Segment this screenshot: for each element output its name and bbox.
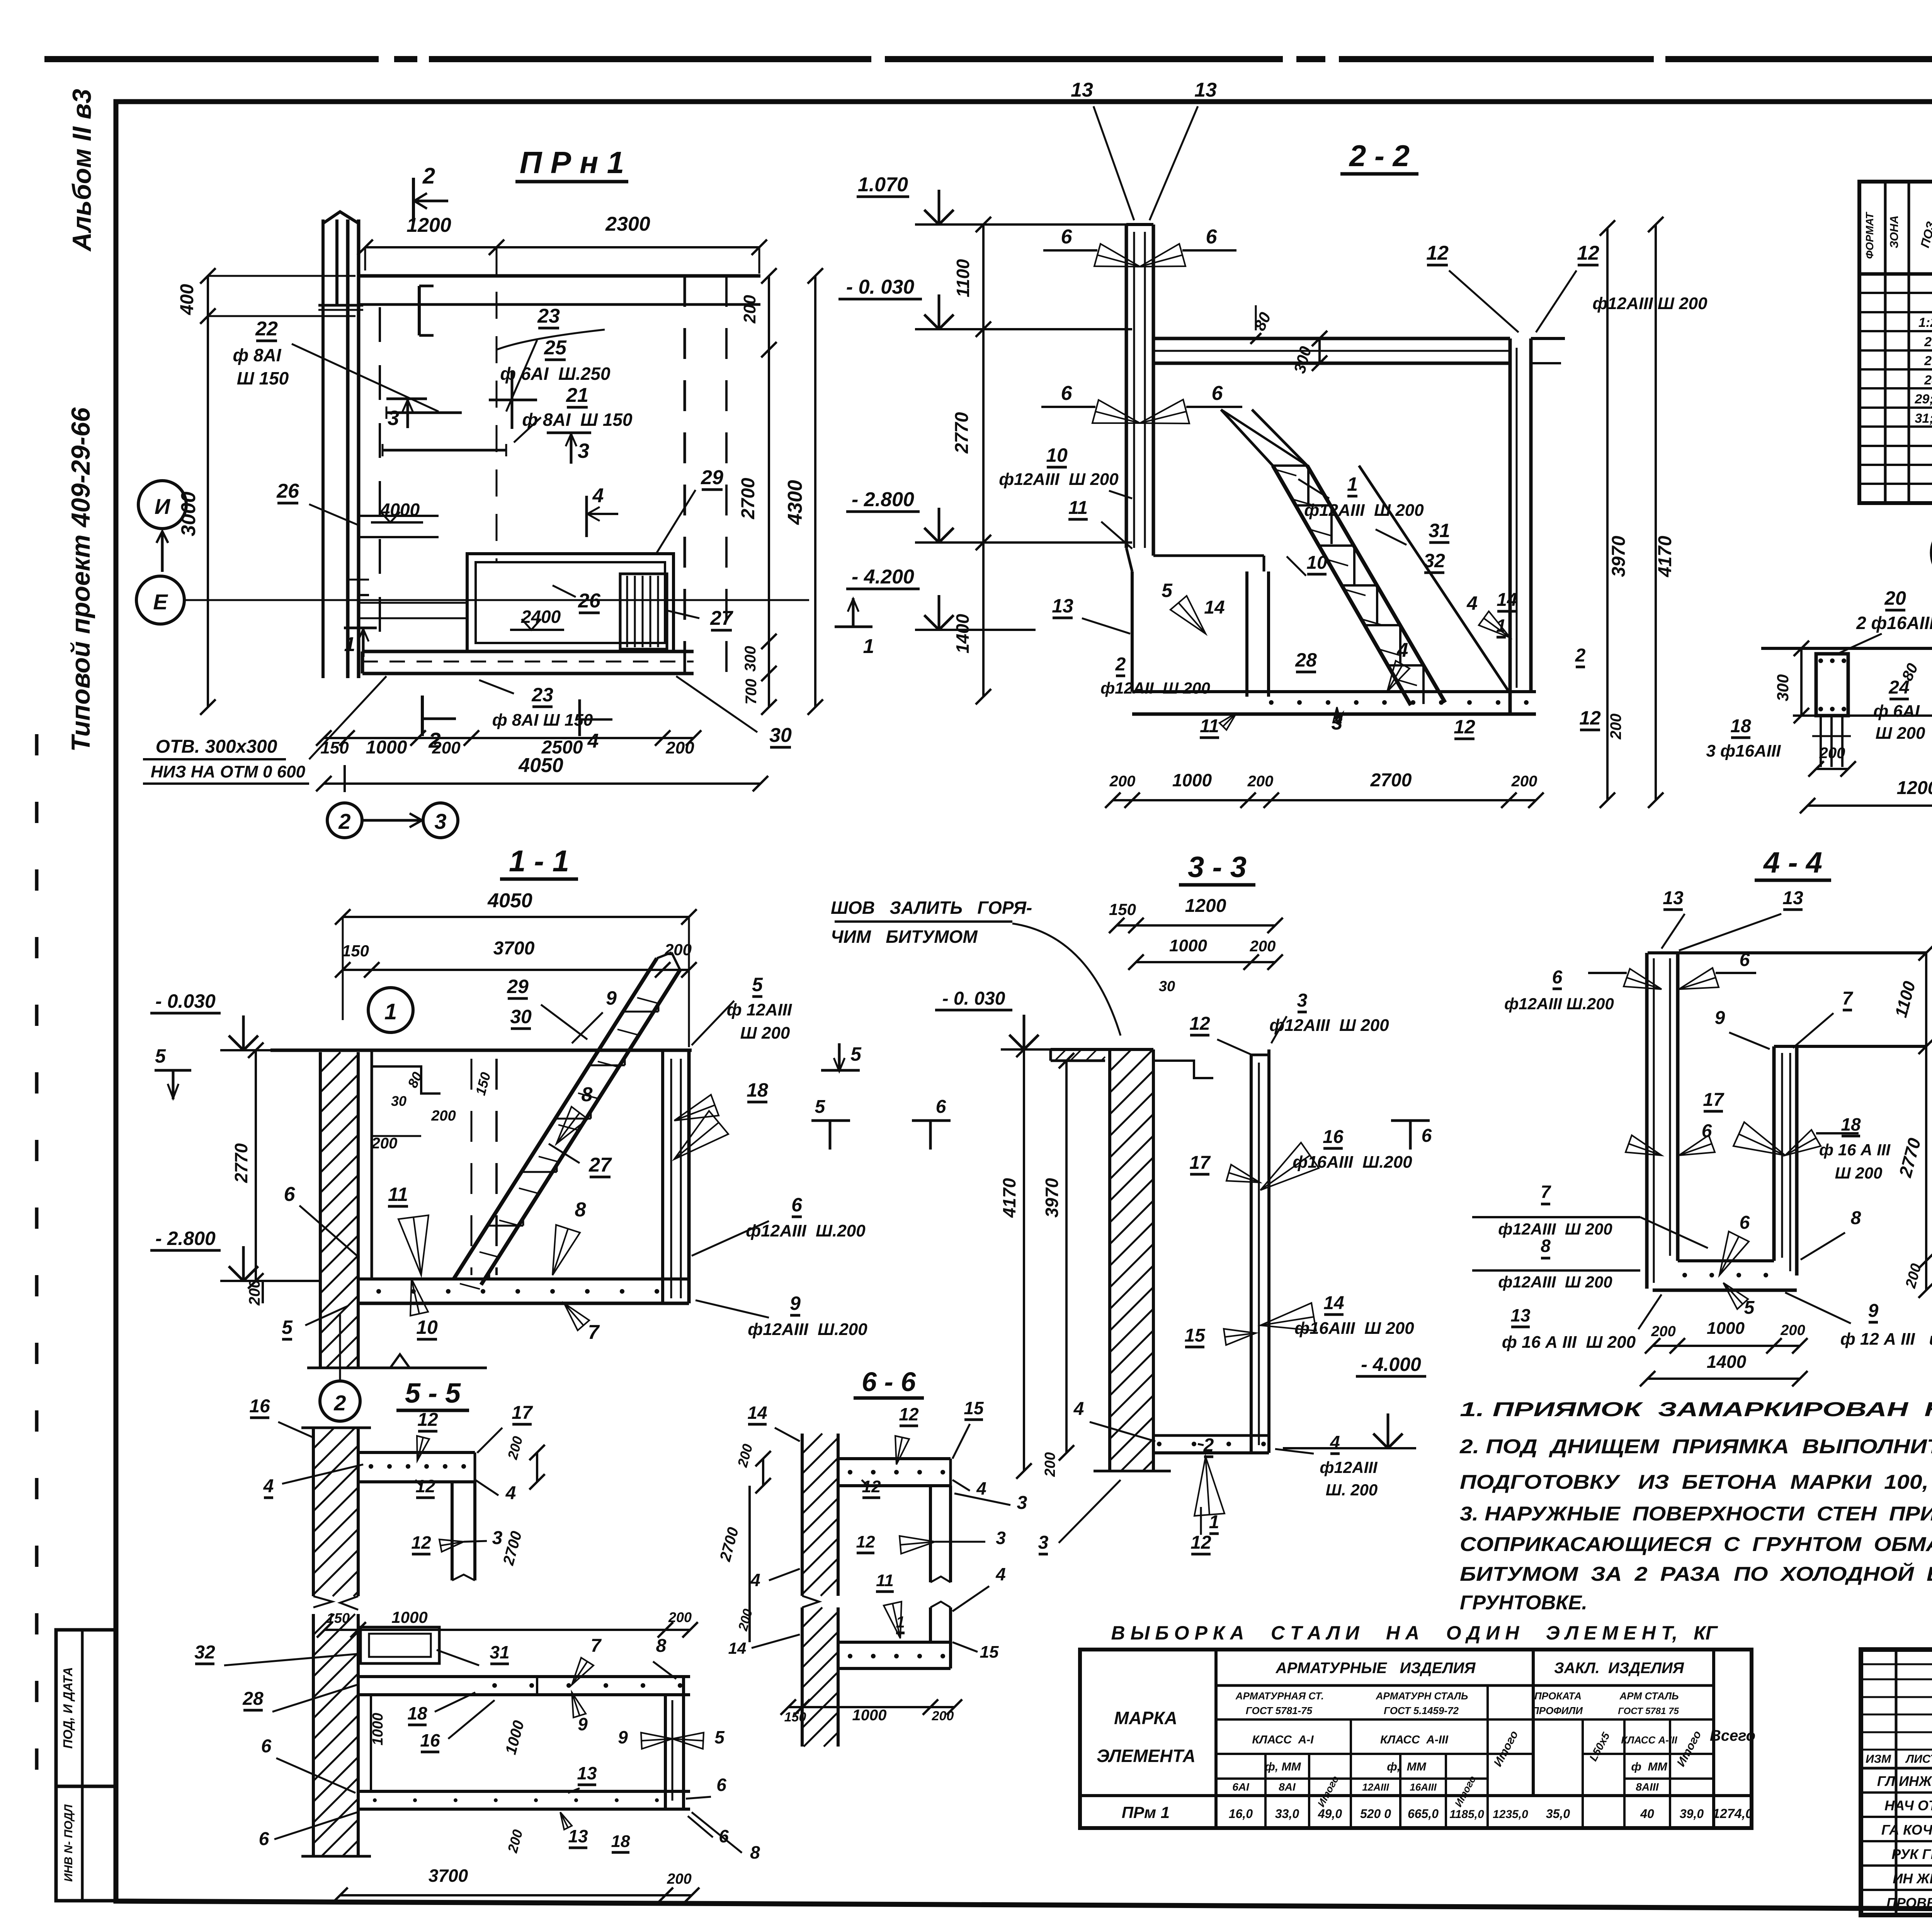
svg-text:1 - 1: 1 - 1	[509, 844, 569, 878]
svg-text:8: 8	[1851, 1208, 1861, 1228]
svg-text:П Р н 1: П Р н 1	[520, 145, 624, 180]
svg-text:17: 17	[1189, 1153, 1211, 1173]
svg-text:6: 6	[259, 1829, 269, 1849]
svg-text:12: 12	[411, 1532, 431, 1553]
svg-text:ИЗМ: ИЗМ	[1866, 1753, 1891, 1765]
section 1-1 section mark 5 right	[821, 1069, 860, 1072]
svg-text:33,0: 33,0	[1275, 1807, 1299, 1821]
svg-text:3: 3	[1017, 1493, 1027, 1513]
paper left dashed fold line	[35, 734, 39, 1816]
svg-text:1: 1	[344, 633, 355, 656]
svg-text:31;32: 31;32	[1915, 411, 1932, 426]
svg-text:18: 18	[747, 1079, 768, 1101]
svg-text:2: 2	[333, 1391, 346, 1415]
section 1-1 stair top break	[657, 952, 672, 958]
svg-text:28: 28	[1924, 373, 1932, 388]
svg-text:ф 6АI Ш.250: ф 6АI Ш.250	[500, 364, 611, 384]
svg-text:2300: 2300	[605, 213, 650, 235]
section 1-1 right wall	[661, 1050, 664, 1303]
svg-text:13: 13	[1510, 1305, 1531, 1325]
section 1-1 ground line	[270, 1049, 692, 1052]
section 2-2 stair diagonal	[1273, 466, 1411, 705]
svg-text:1: 1	[384, 999, 397, 1024]
svg-text:3700: 3700	[493, 938, 535, 959]
svg-text:3: 3	[1038, 1532, 1049, 1553]
svg-text:150: 150	[327, 1610, 350, 1626]
svg-text:29;30: 29;30	[1915, 392, 1932, 406]
svg-text:1000: 1000	[1707, 1319, 1745, 1338]
svg-text:7: 7	[591, 1636, 602, 1656]
svg-text:35,0: 35,0	[1546, 1807, 1570, 1821]
plan PRN1 bottom dimension line	[324, 737, 694, 739]
svg-text:150: 150	[1109, 900, 1136, 918]
section 5-5 right wall	[664, 1695, 667, 1809]
section 3-3 bottom ground break	[1094, 1470, 1171, 1473]
svg-text:1.070: 1.070	[858, 173, 908, 196]
plan PRN1 top edge inner line	[359, 303, 760, 306]
plan PRN1 section circles 2 3	[327, 803, 362, 838]
svg-text:ф 12 А III ш 200: ф 12 А III ш 200	[1840, 1330, 1932, 1349]
svg-text:10: 10	[416, 1316, 438, 1338]
svg-text:3: 3	[1297, 990, 1308, 1011]
svg-text:12: 12	[1579, 707, 1601, 729]
svg-text:ПРОКАТА: ПРОКАТА	[1534, 1690, 1582, 1702]
svg-text:200: 200	[932, 1709, 954, 1723]
svg-text:49,0: 49,0	[1318, 1807, 1342, 1821]
svg-text:1000: 1000	[1172, 770, 1212, 790]
svg-text:ф16АIII Ш 200: ф16АIII Ш 200	[1294, 1319, 1414, 1338]
svg-text:4: 4	[1397, 639, 1408, 662]
svg-text:8АIII: 8АIII	[1636, 1781, 1659, 1793]
svg-text:5 - 5: 5 - 5	[405, 1378, 461, 1409]
svg-text:ф, ММ: ф, ММ	[1387, 1760, 1427, 1773]
svg-text:28: 28	[1295, 649, 1317, 671]
section 2-2 tie fans lower left	[1170, 596, 1206, 634]
plan PRN1 left dimension line 400 3000	[207, 276, 209, 707]
svg-text:1000: 1000	[391, 1608, 427, 1626]
svg-text:4: 4	[505, 1483, 516, 1503]
svg-text:ф 8АI: ф 8АI	[233, 345, 281, 365]
svg-text:1000: 1000	[852, 1707, 887, 1724]
svg-text:40: 40	[1640, 1807, 1654, 1821]
section 4-4 bottom dims	[1653, 1345, 1800, 1347]
svg-text:18: 18	[407, 1703, 427, 1723]
plan PRN1 total dimension 4050	[324, 782, 760, 785]
svg-text:200: 200	[740, 295, 759, 324]
svg-text:КЛАСС А-III: КЛАСС А-III	[1621, 1734, 1677, 1746]
svg-text:1400: 1400	[952, 614, 973, 653]
svg-text:3: 3	[578, 439, 589, 463]
svg-text:2 - 2: 2 - 2	[1349, 139, 1410, 173]
plan PRN1 right dimension lines	[768, 276, 770, 707]
svg-text:ф 8АI Ш 150: ф 8АI Ш 150	[492, 711, 593, 730]
section 1-1 circle 1	[368, 988, 413, 1032]
svg-text:30: 30	[769, 724, 792, 747]
section 2-2 stair top X brace	[1221, 410, 1273, 466]
svg-text:200: 200	[1250, 938, 1276, 955]
svg-text:1:25: 1:25	[1918, 315, 1932, 330]
svg-text:12АIII: 12АIII	[1362, 1781, 1389, 1793]
plan PRN1 section mark 3 left	[386, 398, 427, 400]
svg-text:1200: 1200	[1897, 778, 1932, 798]
plan PRN1 axis dashed line	[379, 307, 381, 653]
section 4-4 inner wall	[1772, 1046, 1776, 1261]
specification table grid	[1859, 182, 1932, 503]
svg-text:4050: 4050	[487, 889, 532, 912]
svg-text:- 0. 030: - 0. 030	[846, 276, 914, 298]
svg-text:32: 32	[194, 1642, 215, 1663]
svg-text:ИНВ N- ПОДЛ: ИНВ N- ПОДЛ	[62, 1804, 75, 1882]
svg-text:ГЛ ИНЖ.ЛР: ГЛ ИНЖ.ЛР	[1877, 1773, 1932, 1789]
svg-text:11: 11	[388, 1184, 408, 1205]
svg-text:6: 6	[1061, 382, 1073, 405]
svg-text:200: 200	[1511, 773, 1537, 790]
svg-text:КЛАСС А-I: КЛАСС А-I	[1252, 1733, 1314, 1746]
svg-text:7: 7	[1842, 988, 1854, 1009]
svg-text:200: 200	[1109, 773, 1136, 790]
svg-text:- 0. 030: - 0. 030	[942, 988, 1005, 1009]
svg-text:12: 12	[1426, 242, 1449, 264]
svg-text:8: 8	[750, 1842, 760, 1862]
svg-text:ГОСТ 5781 75: ГОСТ 5781 75	[1618, 1706, 1679, 1716]
svg-text:АРМАТУРНАЯ СТ.: АРМАТУРНАЯ СТ.	[1235, 1690, 1324, 1702]
svg-text:15: 15	[964, 1398, 984, 1418]
svg-text:ГРУНТОВКЕ.: ГРУНТОВКЕ.	[1460, 1592, 1587, 1614]
section 2-2 top right slab	[1153, 337, 1510, 340]
detail 1 ties below column	[1820, 716, 1822, 767]
paper top edge line	[44, 56, 379, 62]
svg-text:Ш 200: Ш 200	[1876, 724, 1925, 743]
svg-text:14: 14	[747, 1403, 767, 1423]
plan PRN1 right dashed wall line	[684, 276, 686, 673]
svg-text:ф12АII Ш 200: ф12АII Ш 200	[1100, 679, 1210, 697]
svg-text:1235,0: 1235,0	[1493, 1808, 1528, 1821]
svg-text:30: 30	[391, 1093, 406, 1109]
svg-text:200: 200	[1247, 773, 1274, 790]
section 4-4 right dim vertical	[1925, 953, 1927, 1290]
section 1-1 circle 2 below	[320, 1381, 360, 1421]
section 3-3 right thin wall	[1250, 1055, 1253, 1453]
plan PRN1 existing column stub	[321, 219, 325, 678]
svg-text:АРМАТУРНЫЕ ИЗДЕЛИЯ: АРМАТУРНЫЕ ИЗДЕЛИЯ	[1276, 1660, 1476, 1677]
svg-text:ЛИСТ: ЛИСТ	[1905, 1753, 1932, 1765]
title block left grid	[1895, 1650, 1898, 1915]
section 3-3 wall top cap	[1051, 1048, 1153, 1051]
section 4-4 inner level line	[1797, 1045, 1926, 1048]
svg-text:14: 14	[1323, 1293, 1344, 1313]
svg-text:ОТВ. 300х300: ОТВ. 300х300	[156, 736, 277, 757]
svg-text:22: 22	[255, 318, 278, 340]
svg-text:ЗАКЛ. ИЗДЕЛИЯ: ЗАКЛ. ИЗДЕЛИЯ	[1554, 1660, 1684, 1677]
svg-text:23: 23	[531, 684, 553, 706]
svg-text:150: 150	[784, 1710, 806, 1725]
svg-text:ф 6АI: ф 6АI	[1873, 702, 1920, 721]
section 6-6 hatched wall	[801, 1434, 804, 1596]
stamp box Pod i data	[56, 1630, 116, 1786]
svg-text:200: 200	[1651, 1323, 1675, 1340]
svg-text:ф12АIII Ш 200: ф12АIII Ш 200	[1498, 1273, 1612, 1291]
svg-text:12: 12	[1190, 1532, 1211, 1553]
svg-text:13: 13	[568, 1826, 588, 1846]
svg-text:6: 6	[791, 1194, 803, 1216]
section 5-5 bottom slab	[358, 1790, 690, 1793]
svg-text:7: 7	[1541, 1182, 1551, 1202]
svg-text:6АI: 6АI	[1232, 1781, 1250, 1793]
svg-text:200: 200	[665, 738, 694, 757]
svg-text:6 - 6: 6 - 6	[862, 1367, 916, 1397]
section 2-2 right slab corner	[1531, 337, 1565, 340]
svg-text:БИТУМОМ ЗА 2 РАЗА ПО ХОЛО: БИТУМОМ ЗА 2 РАЗА ПО ХОЛОДНОЙ БИТУМНОЙ	[1460, 1562, 1932, 1585]
svg-text:26: 26	[1924, 335, 1932, 349]
section 2-2 tie fans middle	[1140, 400, 1189, 423]
svg-text:21: 21	[566, 384, 588, 406]
svg-text:6: 6	[1212, 382, 1223, 405]
svg-text:12: 12	[1577, 242, 1599, 264]
svg-text:3 - 3: 3 - 3	[1188, 851, 1247, 884]
section 1-1 wall bottom break	[307, 1367, 487, 1369]
svg-text:1185,0: 1185,0	[1449, 1808, 1484, 1821]
section 1-1 section mark 5 left	[155, 1069, 191, 1072]
section 5-5 top slab	[358, 1451, 475, 1454]
svg-text:ф12АIII Ш 200: ф12АIII Ш 200	[1498, 1220, 1612, 1238]
svg-text:13: 13	[1663, 888, 1684, 908]
svg-text:16: 16	[420, 1730, 440, 1750]
svg-text:ПОДГОТОВКУ ИЗ БЕТОНА МАРКИ: ПОДГОТОВКУ ИЗ БЕТОНА МАРКИ 100, ТОЛЩ. 10…	[1460, 1471, 1932, 1493]
svg-text:13: 13	[1194, 79, 1217, 101]
svg-text:12: 12	[862, 1477, 881, 1496]
svg-text:16,0: 16,0	[1229, 1807, 1253, 1821]
svg-text:6: 6	[936, 1097, 946, 1117]
svg-text:31: 31	[1429, 520, 1450, 541]
svg-text:200: 200	[371, 1135, 398, 1152]
svg-text:29: 29	[507, 976, 529, 997]
plan PRN1 top dimension line 1200 2300	[365, 246, 759, 248]
svg-text:ф12АIII Ш 200: ф12АIII Ш 200	[1592, 294, 1708, 313]
svg-text:ШОВ ЗАЛИТЬ ГОРЯ-: ШОВ ЗАЛИТЬ ГОРЯ-	[831, 898, 1032, 918]
svg-text:5: 5	[752, 974, 763, 995]
section 2-2 left wall	[1125, 224, 1128, 548]
svg-text:39,0: 39,0	[1680, 1807, 1704, 1821]
svg-text:9: 9	[618, 1727, 628, 1747]
svg-text:31: 31	[490, 1642, 509, 1662]
svg-text:24: 24	[1888, 677, 1909, 698]
svg-text:КЛАСС А-III: КЛАСС А-III	[1380, 1733, 1449, 1746]
svg-text:3: 3	[492, 1528, 503, 1548]
svg-text:13: 13	[1052, 595, 1073, 617]
detail 1 top line	[1761, 647, 1932, 650]
section 2-2 tie fans top	[1140, 244, 1185, 267]
title block outer frame	[1861, 1650, 1932, 1915]
detail 1 bottom line	[1793, 714, 1932, 717]
svg-text:ф12АIII Ш.200: ф12АIII Ш.200	[1504, 995, 1614, 1013]
svg-text:2: 2	[1203, 1435, 1214, 1456]
section 6-6 lower small section	[838, 1641, 951, 1644]
section 5-5 dims 150 1000 200	[325, 1629, 690, 1631]
section 2-2 right dims 3970 4170	[1606, 228, 1609, 800]
plan PRN1 left wall	[346, 219, 350, 678]
svg-text:НАЧ ОТД: НАЧ ОТД	[1884, 1798, 1932, 1813]
plan PRN1 bottom slab	[362, 650, 694, 653]
svg-text:14: 14	[1204, 597, 1225, 618]
svg-text:1100: 1100	[953, 259, 973, 297]
section 4-4 ground line	[1648, 951, 1926, 954]
svg-text:23: 23	[537, 305, 560, 327]
svg-text:3. НАРУЖНЫЕ ПОВЕРХНОСТИ СТЕН: 3. НАРУЖНЫЕ ПОВЕРХНОСТИ СТЕН ПРИЯМКА	[1460, 1503, 1932, 1525]
svg-text:12: 12	[417, 1410, 438, 1430]
svg-text:2700: 2700	[738, 478, 759, 519]
svg-text:2770: 2770	[952, 412, 972, 454]
plan PRN1 pit opening	[467, 554, 673, 651]
section 5-5 bottom dims	[340, 1894, 692, 1896]
plan PRN1 section mark 4 bottom	[578, 699, 581, 736]
svg-text:6: 6	[1422, 1126, 1432, 1146]
svg-text:2: 2	[338, 809, 350, 833]
svg-text:4: 4	[587, 730, 599, 752]
svg-text:3970: 3970	[1609, 536, 1629, 577]
svg-text:Альбом II в3: Альбом II в3	[67, 89, 97, 252]
section 5-5 top right wall	[451, 1482, 454, 1580]
svg-text:300: 300	[1774, 674, 1792, 701]
svg-text:9: 9	[1868, 1301, 1879, 1321]
svg-text:ф ММ: ф ММ	[1631, 1760, 1667, 1773]
svg-text:700: 700	[743, 679, 760, 705]
svg-text:4050: 4050	[518, 754, 563, 777]
svg-text:ГОСТ 5781-75: ГОСТ 5781-75	[1246, 1705, 1313, 1716]
section 1-1 hatched left wall	[319, 1052, 322, 1368]
svg-text:ГА КОЧЕТ: ГА КОЧЕТ	[1881, 1822, 1932, 1838]
svg-text:ФОРМАТ: ФОРМАТ	[1864, 211, 1876, 259]
section 3-3 dims top	[1117, 924, 1275, 927]
svg-text:ПРОВЕР: ПРОВЕР	[1886, 1895, 1932, 1911]
svg-text:17: 17	[512, 1403, 533, 1423]
svg-text:4: 4	[1073, 1399, 1084, 1419]
svg-text:15: 15	[1184, 1325, 1206, 1346]
plan PRN1 section mark 2 bottom	[421, 696, 424, 736]
svg-text:1000: 1000	[370, 1713, 386, 1746]
svg-text:ПРм 1: ПРм 1	[1122, 1803, 1170, 1821]
section 2-2 right wall	[1509, 338, 1512, 714]
svg-text:5: 5	[714, 1727, 725, 1747]
svg-text:ф12АIII Ш 200: ф12АIII Ш 200	[1269, 1016, 1389, 1035]
svg-text:6: 6	[1206, 226, 1218, 248]
svg-text:3: 3	[388, 406, 399, 430]
svg-text:6: 6	[1740, 1213, 1750, 1233]
svg-text:1274,0: 1274,0	[1713, 1806, 1753, 1821]
section 5-5 wall break marks	[313, 1596, 332, 1607]
svg-text:Типовой проект 409-29-66: Типовой проект 409-29-66	[66, 407, 95, 752]
svg-text:29: 29	[701, 466, 723, 489]
detail 1 dims 300 80 150	[1800, 648, 1803, 716]
svg-text:13: 13	[577, 1763, 597, 1783]
svg-text:1200: 1200	[1185, 896, 1226, 916]
detail 1 column section	[1816, 654, 1848, 716]
svg-text:5: 5	[1162, 580, 1173, 601]
svg-text:6: 6	[1552, 967, 1563, 988]
svg-text:4: 4	[263, 1476, 274, 1497]
svg-text:АРМАТУРН СТАЛЬ: АРМАТУРН СТАЛЬ	[1376, 1690, 1468, 1702]
svg-text:2: 2	[1115, 654, 1126, 675]
svg-text:16АIII: 16АIII	[1410, 1781, 1437, 1793]
svg-text:9: 9	[790, 1293, 801, 1314]
section 4-4 left wall	[1645, 953, 1649, 1289]
svg-text:200: 200	[1607, 714, 1624, 740]
svg-text:4: 4	[1466, 592, 1478, 614]
svg-text:8: 8	[1541, 1236, 1551, 1256]
svg-text:12: 12	[1454, 716, 1475, 738]
section 5-5 hatched wall lower	[312, 1614, 315, 1856]
svg-text:ф12АIII: ф12АIII	[1320, 1458, 1378, 1476]
section 4-4 bottom slab	[1678, 1259, 1774, 1262]
svg-text:27: 27	[588, 1154, 612, 1176]
svg-text:4300: 4300	[784, 480, 806, 525]
svg-text:И: И	[155, 494, 171, 519]
svg-text:10: 10	[1046, 444, 1068, 466]
svg-text:ЭЛЕМЕНТА: ЭЛЕМЕНТА	[1097, 1746, 1196, 1766]
svg-text:16: 16	[249, 1396, 270, 1417]
svg-text:ЧИМ БИТУМОМ: ЧИМ БИТУМОМ	[831, 927, 978, 947]
svg-text:9: 9	[578, 1714, 588, 1734]
svg-text:- 0.030: - 0.030	[155, 990, 216, 1012]
section 1-1 wall inner line	[371, 1050, 373, 1279]
svg-text:4 - 4: 4 - 4	[1763, 846, 1822, 879]
svg-text:2: 2	[422, 163, 435, 189]
section 5-5 window opening	[361, 1627, 439, 1663]
svg-text:ГОСТ 5.1459-72: ГОСТ 5.1459-72	[1384, 1705, 1459, 1716]
svg-text:НИЗ НА ОТМ 0 600: НИЗ НА ОТМ 0 600	[151, 762, 306, 781]
section 1-1 stair diagonal	[454, 958, 657, 1279]
svg-text:1000: 1000	[1169, 936, 1207, 955]
svg-text:14: 14	[1497, 590, 1517, 610]
svg-text:В Ы Б О Р К А С Т А Л И: В Ы Б О Р К А С Т А Л И Н А О Д И Н Э Л …	[1111, 1622, 1718, 1644]
svg-text:20: 20	[1884, 587, 1906, 609]
svg-text:15: 15	[980, 1643, 999, 1662]
svg-text:12: 12	[899, 1404, 919, 1424]
section 5-5 mid slab	[358, 1675, 690, 1678]
svg-text:16: 16	[1323, 1127, 1344, 1147]
svg-text:2 ф16АIII: 2 ф16АIII	[1856, 613, 1932, 633]
section 2-2 dim 1100 2770 1400	[982, 224, 985, 697]
svg-text:4170: 4170	[1655, 536, 1675, 577]
section 1-1 recess step top-left	[372, 1066, 440, 1094]
plan PRN1 joint lines	[318, 304, 363, 307]
svg-text:5: 5	[815, 1097, 826, 1117]
svg-text:12: 12	[415, 1476, 435, 1496]
svg-text:6: 6	[284, 1183, 296, 1206]
svg-text:- 2.800: - 2.800	[852, 488, 914, 511]
svg-text:3: 3	[996, 1528, 1006, 1548]
section 2-2 wall step	[1126, 548, 1132, 571]
svg-text:ПОД, И ДАТА: ПОД, И ДАТА	[61, 1667, 75, 1748]
plan PRN1 top edge	[359, 274, 760, 278]
svg-text:200: 200	[1819, 745, 1845, 762]
svg-text:3970: 3970	[1042, 1178, 1062, 1218]
svg-text:200: 200	[1042, 1452, 1058, 1477]
section 2-2 bottom dims	[1113, 799, 1536, 801]
section 3-3 dim verticals 4170 3970	[1023, 1049, 1025, 1471]
svg-text:30: 30	[1159, 978, 1175, 995]
stamp box Inv N podl	[56, 1786, 116, 1901]
svg-text:6: 6	[716, 1775, 726, 1795]
section 4-4 tie fans top	[1624, 969, 1662, 989]
svg-text:18: 18	[611, 1832, 630, 1851]
svg-text:ИН ЖЕ: ИН ЖЕ	[1893, 1871, 1932, 1886]
plan PRN1 section mark 3 right	[547, 432, 591, 434]
section 4-4 tie fan 6 slab	[1719, 1231, 1749, 1275]
svg-text:ф 16 А III Ш 200: ф 16 А III Ш 200	[1502, 1333, 1636, 1352]
svg-text:1. ПРИЯМОК ЗАМАРКИРОВАН НА: 1. ПРИЯМОК ЗАМАРКИРОВАН НА ЛИСТЕ КЖ-4.	[1460, 1398, 1932, 1421]
svg-text:Е: Е	[153, 590, 168, 614]
svg-text:27: 27	[1924, 354, 1932, 368]
